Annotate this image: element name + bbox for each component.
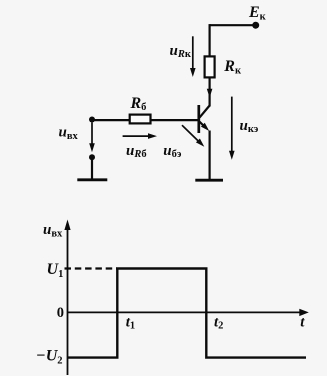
dashed level U1 [65, 267, 118, 269]
transistor emitter lead [200, 122, 206, 128]
transistor collector lead [200, 106, 210, 118]
voltage arrow uRb [123, 135, 150, 137]
wire resistor to collector [209, 77, 211, 106]
svg-text:0: 0 [57, 305, 64, 321]
voltage arrow uke [231, 97, 233, 153]
wire input to ground [91, 157, 93, 179]
transistor Q base bar [197, 105, 200, 133]
voltage arrow uvx [91, 123, 93, 146]
node input plus [89, 117, 95, 123]
ground left [77, 178, 107, 181]
wire supply vertical [209, 24, 211, 56]
ground right [195, 179, 223, 182]
wire emitter down [209, 131, 211, 180]
current arrowhead on collector wire [207, 89, 213, 98]
resistor Rk [205, 56, 215, 77]
waveform pulse [68, 269, 306, 358]
voltage arrow ube [182, 125, 200, 142]
y-axis [67, 228, 69, 375]
resistor Rb [130, 115, 151, 124]
voltage arrow uRk [192, 36, 194, 69]
wire base horizontal [92, 119, 198, 121]
wire top horizontal [210, 24, 255, 26]
node Ek terminal [252, 22, 259, 29]
x-axis [68, 311, 301, 313]
node input minus [89, 154, 95, 160]
